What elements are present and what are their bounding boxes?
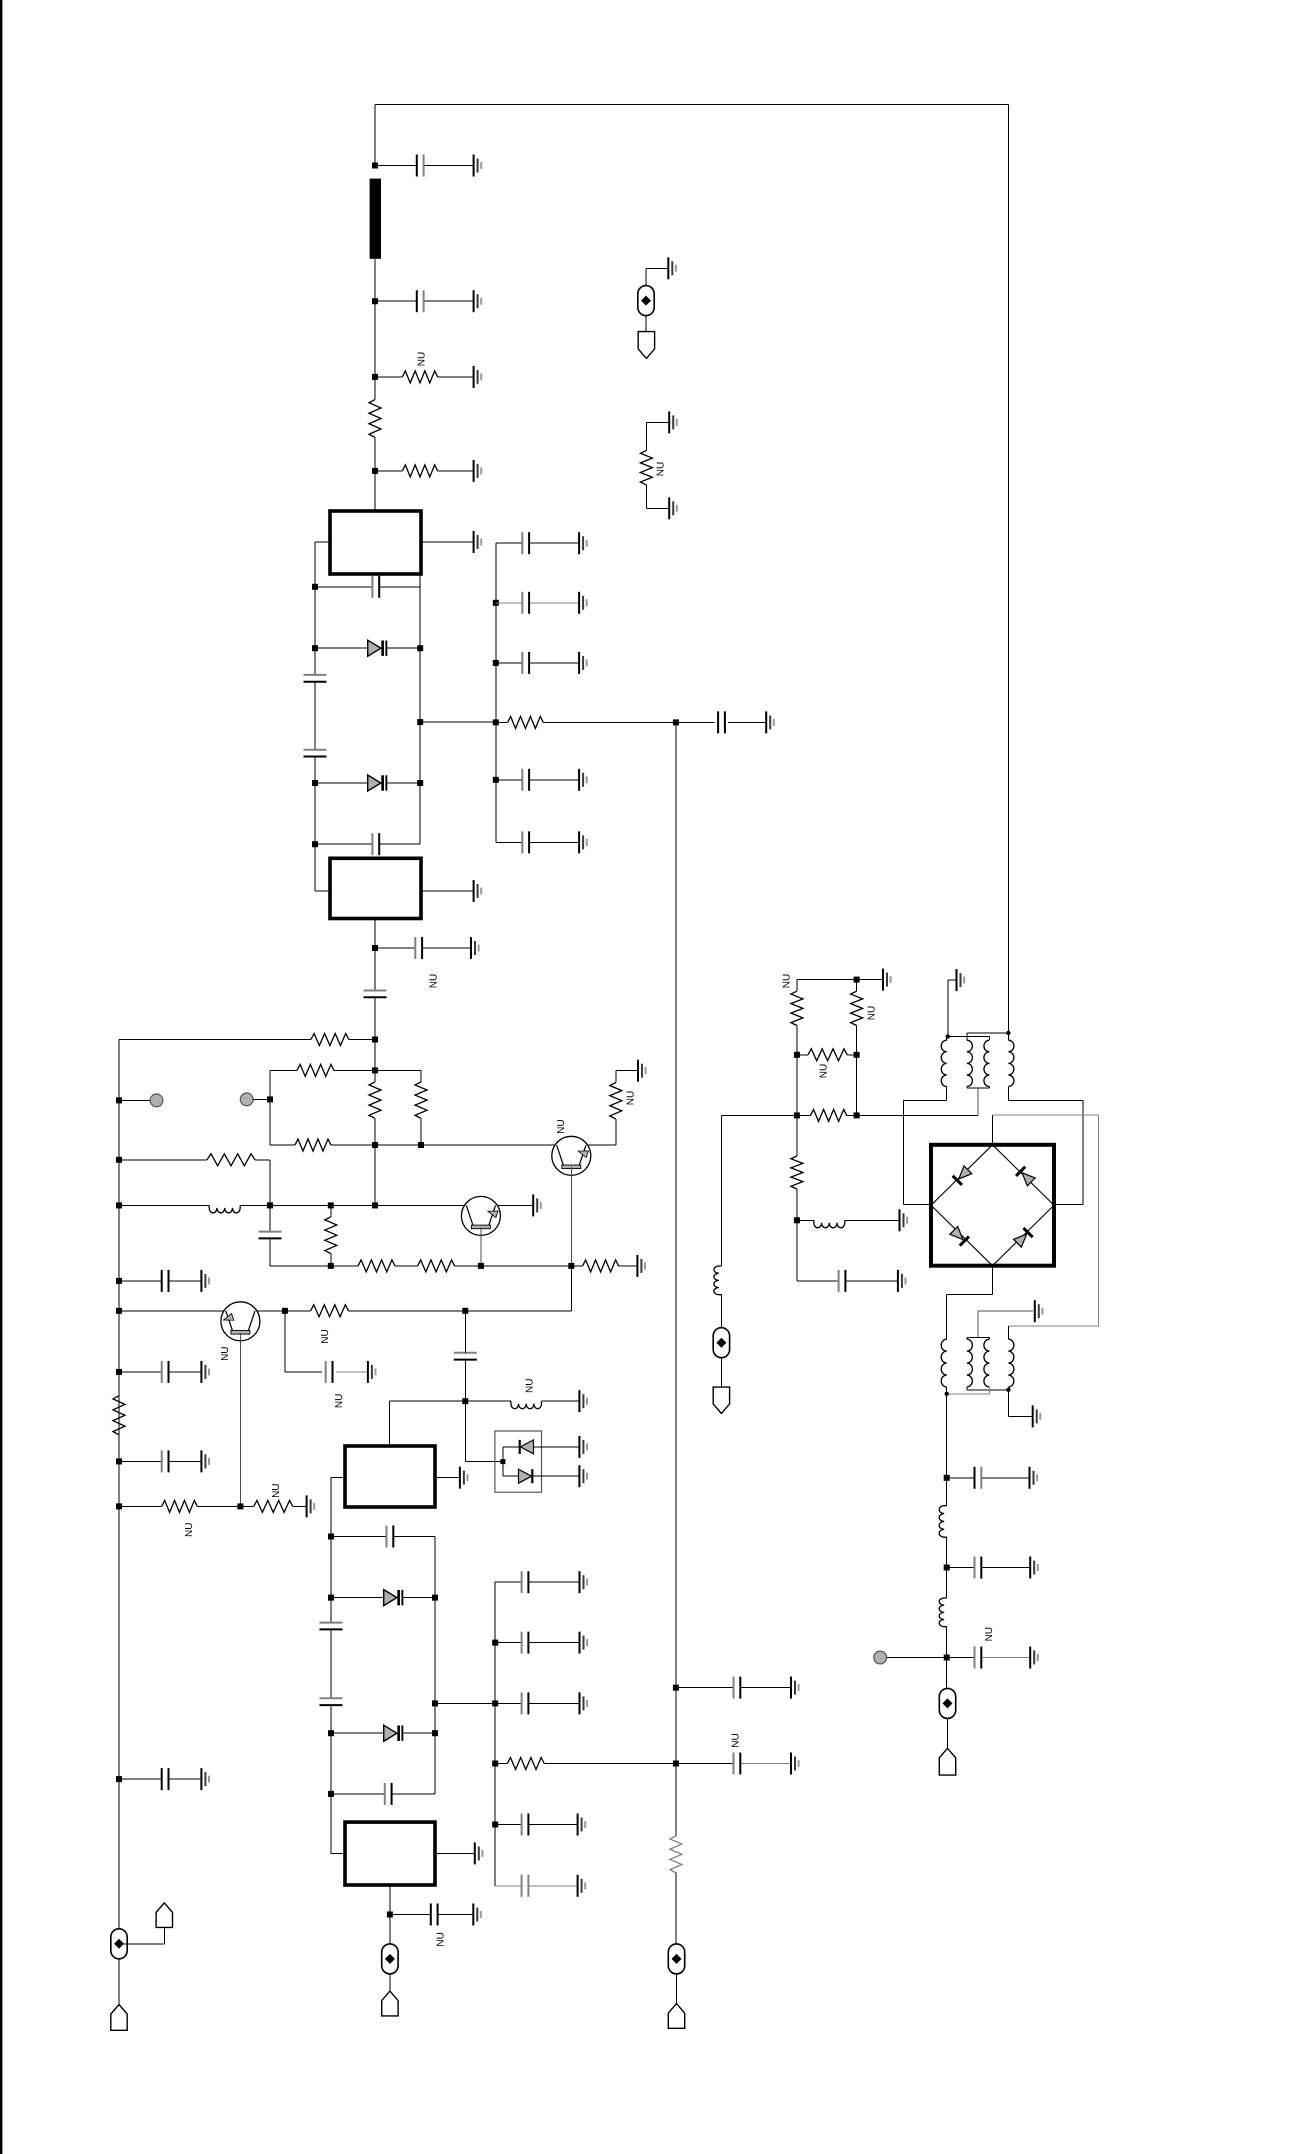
resistor R16 xyxy=(162,1500,198,1512)
transistor Q1 xyxy=(552,1136,591,1175)
ground xyxy=(201,1768,209,1790)
wire diamond xyxy=(931,1145,1054,1266)
capacitor C10 xyxy=(161,1270,163,1292)
node row 1506 left xyxy=(116,1503,122,1509)
wire resistor row xyxy=(375,470,402,472)
wire cap row 1643 xyxy=(495,1642,521,1644)
diode D4 xyxy=(519,1469,532,1483)
capacitor C1 xyxy=(416,155,418,177)
node top-1 xyxy=(372,163,378,169)
wire xyxy=(285,1310,311,1312)
port P1 stadium xyxy=(111,1929,127,1959)
wire cap bank rail upper xyxy=(495,543,497,842)
ground xyxy=(637,1255,645,1277)
port pin pentagon down xyxy=(713,1387,729,1413)
ground xyxy=(669,411,677,433)
ground xyxy=(638,1060,646,1082)
wire xyxy=(330,1629,332,1698)
wire xyxy=(465,1310,571,1312)
capacitor C2 xyxy=(416,290,418,312)
port pin pentagon xyxy=(382,1991,398,2016)
wire Q3 collector xyxy=(257,1310,285,1312)
wire T2 w1 to bridge bottom xyxy=(946,1295,948,1340)
capacitor C9 vertical xyxy=(259,1231,282,1233)
node 1688 xyxy=(673,1685,679,1691)
transformer T2 winding 1 xyxy=(941,1339,947,1387)
node xyxy=(387,1912,393,1918)
capacitor C6 xyxy=(371,833,373,855)
wire cap row 1764 xyxy=(676,1763,734,1765)
capacitor C12 vertical xyxy=(454,1352,477,1354)
diode D10 bridge bottom-right xyxy=(1013,1227,1034,1248)
ground xyxy=(580,1632,588,1654)
resistor R23 vertical NU xyxy=(851,991,863,1025)
wire row-F xyxy=(270,1265,358,1267)
node 1055 right xyxy=(854,1052,860,1058)
resistor R12 xyxy=(418,1260,455,1272)
varactor D5 xyxy=(384,1590,397,1606)
wire xyxy=(314,757,316,784)
svg-text:NU: NU xyxy=(656,462,667,476)
pin circle P6 xyxy=(874,1651,887,1664)
wire cap row 722 xyxy=(676,721,715,723)
wire xyxy=(946,1627,948,1689)
ground xyxy=(579,769,587,791)
ground xyxy=(580,1692,588,1714)
wire T1 bottom bracket xyxy=(966,1087,968,1089)
ground xyxy=(669,497,677,519)
ground xyxy=(579,532,587,554)
junction xyxy=(946,1034,950,1038)
resistor R13 xyxy=(583,1260,619,1272)
ground xyxy=(579,1436,587,1458)
node varactor row2 right xyxy=(417,780,423,786)
node varactor row1 right xyxy=(417,645,423,651)
amplifier box U2 xyxy=(330,858,421,918)
wire xyxy=(240,1505,253,1507)
port P2 stadium xyxy=(382,1944,398,1974)
node varactor row4 right xyxy=(432,1730,438,1736)
resistor R26 vertical xyxy=(791,1156,803,1189)
port pin pentagon xyxy=(939,1748,955,1775)
resistor R25 xyxy=(811,1109,847,1121)
capacitor C32 xyxy=(521,769,523,791)
wire resistor row 1764 xyxy=(495,1763,507,1765)
svg-text:NU: NU xyxy=(417,352,428,366)
capacitor C27 xyxy=(733,1677,735,1699)
wire Q3-out branch down xyxy=(284,1311,286,1372)
ground xyxy=(307,1495,315,1517)
pin circle P2 xyxy=(240,1093,253,1106)
wire cap row 1582 xyxy=(495,1581,521,1583)
node 1055 left xyxy=(794,1052,800,1058)
wire T2 center tap to ground xyxy=(977,1311,979,1337)
ground xyxy=(578,1875,586,1897)
wire xyxy=(374,377,376,400)
node cap row 1372 left xyxy=(116,1369,122,1375)
bridge box U6 xyxy=(931,1145,1054,1266)
wire wrap gray xyxy=(993,1114,1099,1116)
ground xyxy=(579,831,587,853)
node row-E rail2 xyxy=(267,1202,273,1208)
node row-E r375 xyxy=(372,1202,378,1208)
wire xyxy=(387,647,420,649)
wire right rail seg xyxy=(419,722,421,844)
inductor L5 vertical xyxy=(939,1506,946,1538)
node varactor row4 left xyxy=(328,1730,334,1736)
wire xyxy=(464,1311,466,1353)
node varactor row3 left xyxy=(328,1595,334,1601)
transformer T2 winding 4 xyxy=(1008,1339,1014,1387)
wire T1 center tap xyxy=(977,1088,979,1115)
node 1703 xyxy=(492,1700,498,1706)
wire xyxy=(856,980,858,992)
wire cap row xyxy=(119,1460,162,1462)
node cap row3 left xyxy=(328,1791,334,1797)
inductor L2 xyxy=(511,1401,542,1409)
resistor R17 xyxy=(254,1500,293,1512)
resistor R3 xyxy=(311,1034,349,1046)
resistor R6 vertical xyxy=(415,1082,427,1118)
ground xyxy=(1030,1467,1038,1489)
wire left rail xyxy=(314,587,316,648)
capacitor C13 xyxy=(161,1361,163,1383)
transmission line TL1 (black bar) xyxy=(370,179,381,259)
capacitor C33 xyxy=(521,831,523,853)
node cap row 1461 left xyxy=(116,1458,122,1464)
wire cap row 603 xyxy=(496,602,522,604)
wire left rail seg xyxy=(330,1733,332,1853)
wire inner rail xyxy=(269,1070,271,1145)
wire xyxy=(796,1115,798,1156)
wire resistor R-NU row xyxy=(375,376,402,378)
node diode pair xyxy=(500,1459,505,1464)
ground xyxy=(668,257,676,279)
port P7 stadium xyxy=(939,1688,955,1718)
wire row-A xyxy=(119,1039,311,1041)
ground xyxy=(474,366,482,388)
capacitor C34 xyxy=(838,1270,840,1292)
varactor D2 xyxy=(368,775,381,791)
wire xyxy=(118,1959,120,2005)
wire row-C xyxy=(270,1144,295,1146)
node 1658 xyxy=(944,1655,950,1661)
wire feedback up xyxy=(570,1266,572,1311)
node left rail tap xyxy=(116,1097,122,1103)
wire cap bank rail lower xyxy=(494,1582,496,1886)
resistor R21 vertical xyxy=(640,450,652,484)
wire xyxy=(796,1189,798,1220)
wire cap C2 row xyxy=(375,300,417,302)
transistor Q3 xyxy=(221,1302,260,1341)
resistor R24 xyxy=(808,1049,847,1061)
node varactor row1 left xyxy=(312,645,318,651)
ground xyxy=(579,1390,587,1412)
amplifier box U4 xyxy=(345,1822,435,1885)
capacitor C36 xyxy=(974,1557,976,1579)
node 1115 right xyxy=(854,1112,860,1118)
wire xyxy=(331,1732,384,1734)
wire cap row 1703 xyxy=(495,1702,521,1704)
node 1568 xyxy=(944,1565,950,1571)
ground xyxy=(578,1814,586,1836)
ground xyxy=(580,1571,588,1593)
wire U2 left pin xyxy=(315,890,330,892)
node row-F Q1 base xyxy=(568,1263,574,1269)
wire xyxy=(403,1597,435,1599)
node long rail top xyxy=(673,719,679,725)
wire xyxy=(676,1974,678,2004)
wire xyxy=(796,1220,798,1281)
node mid tap xyxy=(417,719,423,725)
wire xyxy=(374,948,376,990)
resistor R7 xyxy=(295,1139,331,1151)
wire xyxy=(374,301,376,377)
node cross row right-rail xyxy=(432,1700,438,1706)
inductor L3 vertical xyxy=(714,1266,722,1295)
capacitor C5 vertical xyxy=(304,749,327,751)
page left border xyxy=(0,0,2,2154)
diode pair box U5 xyxy=(495,1431,542,1492)
node row-E r330 xyxy=(328,1202,334,1208)
wire cap row 663 xyxy=(496,662,522,664)
wire bridge top to wrap xyxy=(992,1115,994,1145)
node row-A xyxy=(372,1037,378,1043)
ground xyxy=(1033,1405,1041,1427)
node cap row 1281 left xyxy=(116,1278,122,1284)
wire NU resistor top xyxy=(646,421,669,423)
wire cap row 543 xyxy=(496,542,522,544)
wire left rail seg xyxy=(330,1598,332,1623)
inductor L4 xyxy=(814,1220,845,1228)
capacitor C30 xyxy=(521,592,523,614)
wire U4 left pin xyxy=(331,1852,345,1854)
ground xyxy=(475,1842,483,1864)
wire xyxy=(314,682,316,750)
svg-text:NU: NU xyxy=(220,1346,231,1360)
wire xyxy=(720,1295,722,1328)
wire IF rail xyxy=(946,1394,948,1506)
wire rails xyxy=(796,1055,798,1116)
node 1478 xyxy=(944,1475,950,1481)
resistor R11 xyxy=(358,1260,395,1272)
svg-text:NU: NU xyxy=(271,1483,282,1497)
svg-text:NU: NU xyxy=(731,1733,742,1747)
wire xyxy=(293,1505,307,1507)
wire xyxy=(420,1118,422,1145)
wire xyxy=(856,1026,858,1055)
ground xyxy=(883,969,891,991)
wire stubs xyxy=(502,1447,504,1476)
wire xyxy=(533,1475,580,1477)
node cap row 1779 left xyxy=(116,1776,122,1782)
resistor R10 vertical xyxy=(325,1217,337,1254)
resistor R19 xyxy=(508,716,544,728)
wire left rail seg xyxy=(314,648,316,675)
wire T2 bottom tie 1-3 gray xyxy=(988,1387,990,1394)
varactor D6 xyxy=(384,1725,397,1741)
wire xyxy=(374,997,376,1039)
resistor R5 vertical xyxy=(369,1082,381,1118)
wire T1 w1 to bridge left xyxy=(946,1087,948,1101)
port P4 stadium xyxy=(638,286,654,316)
ground xyxy=(474,880,482,902)
node below U2 xyxy=(372,945,378,951)
ground xyxy=(1030,1557,1038,1579)
capacitor C7 xyxy=(414,937,416,959)
ground xyxy=(460,1467,468,1489)
resistor R9 xyxy=(207,1154,255,1166)
wire xyxy=(374,437,376,471)
wire xyxy=(330,1205,332,1216)
wire Q3 base xyxy=(239,1333,241,1507)
wire inner rail 2 xyxy=(269,1160,271,1231)
node 1764 xyxy=(492,1761,498,1767)
junction xyxy=(1006,1388,1010,1392)
wire U1 bottom stub xyxy=(419,574,421,587)
wire Q1 emitter xyxy=(588,1144,616,1146)
ground xyxy=(579,592,587,614)
wire xyxy=(374,471,376,511)
wire row Q3 xyxy=(119,1310,224,1312)
diode D3 xyxy=(521,1440,534,1454)
node top-2 xyxy=(372,298,378,304)
wire top bus xyxy=(375,104,1008,106)
node 1643 xyxy=(492,1640,498,1646)
wire left rail xyxy=(118,1040,120,1929)
ground xyxy=(579,1465,587,1487)
svg-text:NU: NU xyxy=(867,1006,878,1020)
node 1220 xyxy=(794,1217,800,1223)
wire xyxy=(796,980,798,992)
svg-text:NU: NU xyxy=(984,1627,995,1641)
transformer T2 winding 2 xyxy=(967,1339,973,1387)
node 663 xyxy=(493,660,499,666)
wire cap row 780 xyxy=(496,779,522,781)
wire U1 right pin xyxy=(421,541,474,543)
resistor R1 vertical xyxy=(369,400,381,438)
wire port branch xyxy=(119,1943,164,1945)
diode D7 bridge top-left xyxy=(952,1165,973,1186)
wire U2 bottom pin xyxy=(374,919,376,949)
capacitor C14 xyxy=(161,1450,163,1472)
pin circle P1 xyxy=(150,1094,163,1107)
wire stub xyxy=(119,1099,150,1101)
node row-D left xyxy=(116,1157,122,1163)
transformer T2 winding 3 xyxy=(984,1339,990,1387)
capacitor C19 xyxy=(384,1783,386,1805)
capacitor C28 xyxy=(733,1753,735,1775)
wire T2 top bracket xyxy=(966,1338,968,1340)
ground xyxy=(791,1753,799,1775)
ground xyxy=(474,290,482,312)
svg-text:NU: NU xyxy=(556,1119,567,1133)
port pin pentagon down xyxy=(638,332,654,359)
capacitor C4 vertical xyxy=(304,674,327,676)
wire tap to cap bank xyxy=(420,721,496,723)
wire U3 right pin xyxy=(435,1477,460,1479)
wire U4 bottom pin xyxy=(389,1885,391,1944)
wire row 980 xyxy=(797,979,857,981)
wire cap row 842 xyxy=(496,841,522,843)
amplifier box U1 xyxy=(330,511,421,574)
capacitor C22 xyxy=(521,1632,523,1654)
ground xyxy=(473,1904,481,1926)
wire T2 bottom tie 2-4 xyxy=(966,1387,968,1390)
wire cap row 1281 xyxy=(797,1280,839,1282)
transformer T1 winding 4 xyxy=(1008,1040,1014,1086)
capacitor C35 xyxy=(974,1467,976,1489)
wire cap row xyxy=(119,1778,162,1780)
node 1825 xyxy=(492,1822,498,1828)
node top-4 xyxy=(372,468,378,474)
wire xyxy=(947,1718,949,1748)
ground xyxy=(900,1209,908,1231)
resistor R18 xyxy=(507,1758,544,1770)
capacitor C26 xyxy=(717,711,719,733)
capacitor C8 vertical xyxy=(364,990,387,992)
amplifier box U3 xyxy=(345,1446,435,1507)
capacitor C16 xyxy=(386,1526,388,1548)
capacitor C21 xyxy=(521,1571,523,1593)
wire xyxy=(720,1358,722,1387)
wire resistor row 722 xyxy=(496,721,508,723)
resistor R15 vertical xyxy=(113,1396,125,1435)
wire xyxy=(615,1071,617,1083)
capacitor C20 xyxy=(430,1904,432,1926)
wire long rail xyxy=(675,722,677,1836)
node row-B xyxy=(372,1067,378,1073)
svg-text:NU: NU xyxy=(184,1523,195,1537)
wire cap row 1478 xyxy=(947,1477,975,1479)
node top-3 xyxy=(372,374,378,380)
svg-text:NU: NU xyxy=(626,1091,637,1105)
port pin pentagon xyxy=(156,1903,172,1928)
wire xyxy=(315,647,368,649)
capacitor C25 xyxy=(521,1875,523,1897)
ground xyxy=(474,531,482,553)
wire row 1401 xyxy=(389,1400,465,1402)
wire cap row xyxy=(119,1280,162,1282)
wire row 1506 xyxy=(119,1505,162,1507)
node Q3 base bottom xyxy=(237,1503,243,1509)
wire cap row xyxy=(315,586,372,588)
wire Q1 base xyxy=(570,1167,572,1266)
wire T1 top tie 1-3 xyxy=(946,1036,948,1040)
wire stub xyxy=(887,1657,947,1659)
wire stub xyxy=(253,1098,270,1100)
wire U4 right pin xyxy=(435,1852,475,1854)
wire xyxy=(330,1254,332,1266)
wire xyxy=(420,1070,422,1082)
capacitor C18 vertical xyxy=(320,1697,343,1699)
node 1401 xyxy=(462,1398,468,1404)
capacitor C29 xyxy=(521,532,523,554)
port pin pentagon xyxy=(668,2004,684,2029)
wire Q2 base xyxy=(480,1227,482,1266)
ground xyxy=(368,1361,376,1383)
wire to diode pair xyxy=(464,1401,466,1461)
node 1764 long rail xyxy=(673,1761,679,1767)
capacitor C17 vertical xyxy=(320,1622,343,1624)
wire cap row xyxy=(390,1914,431,1916)
wire xyxy=(645,485,647,508)
wire cap row xyxy=(331,1536,387,1538)
wire xyxy=(675,1873,677,1944)
wire T2 w1 bottom xyxy=(946,1387,948,1394)
wire cap row xyxy=(331,1793,385,1795)
wire left rail seg xyxy=(314,783,316,891)
